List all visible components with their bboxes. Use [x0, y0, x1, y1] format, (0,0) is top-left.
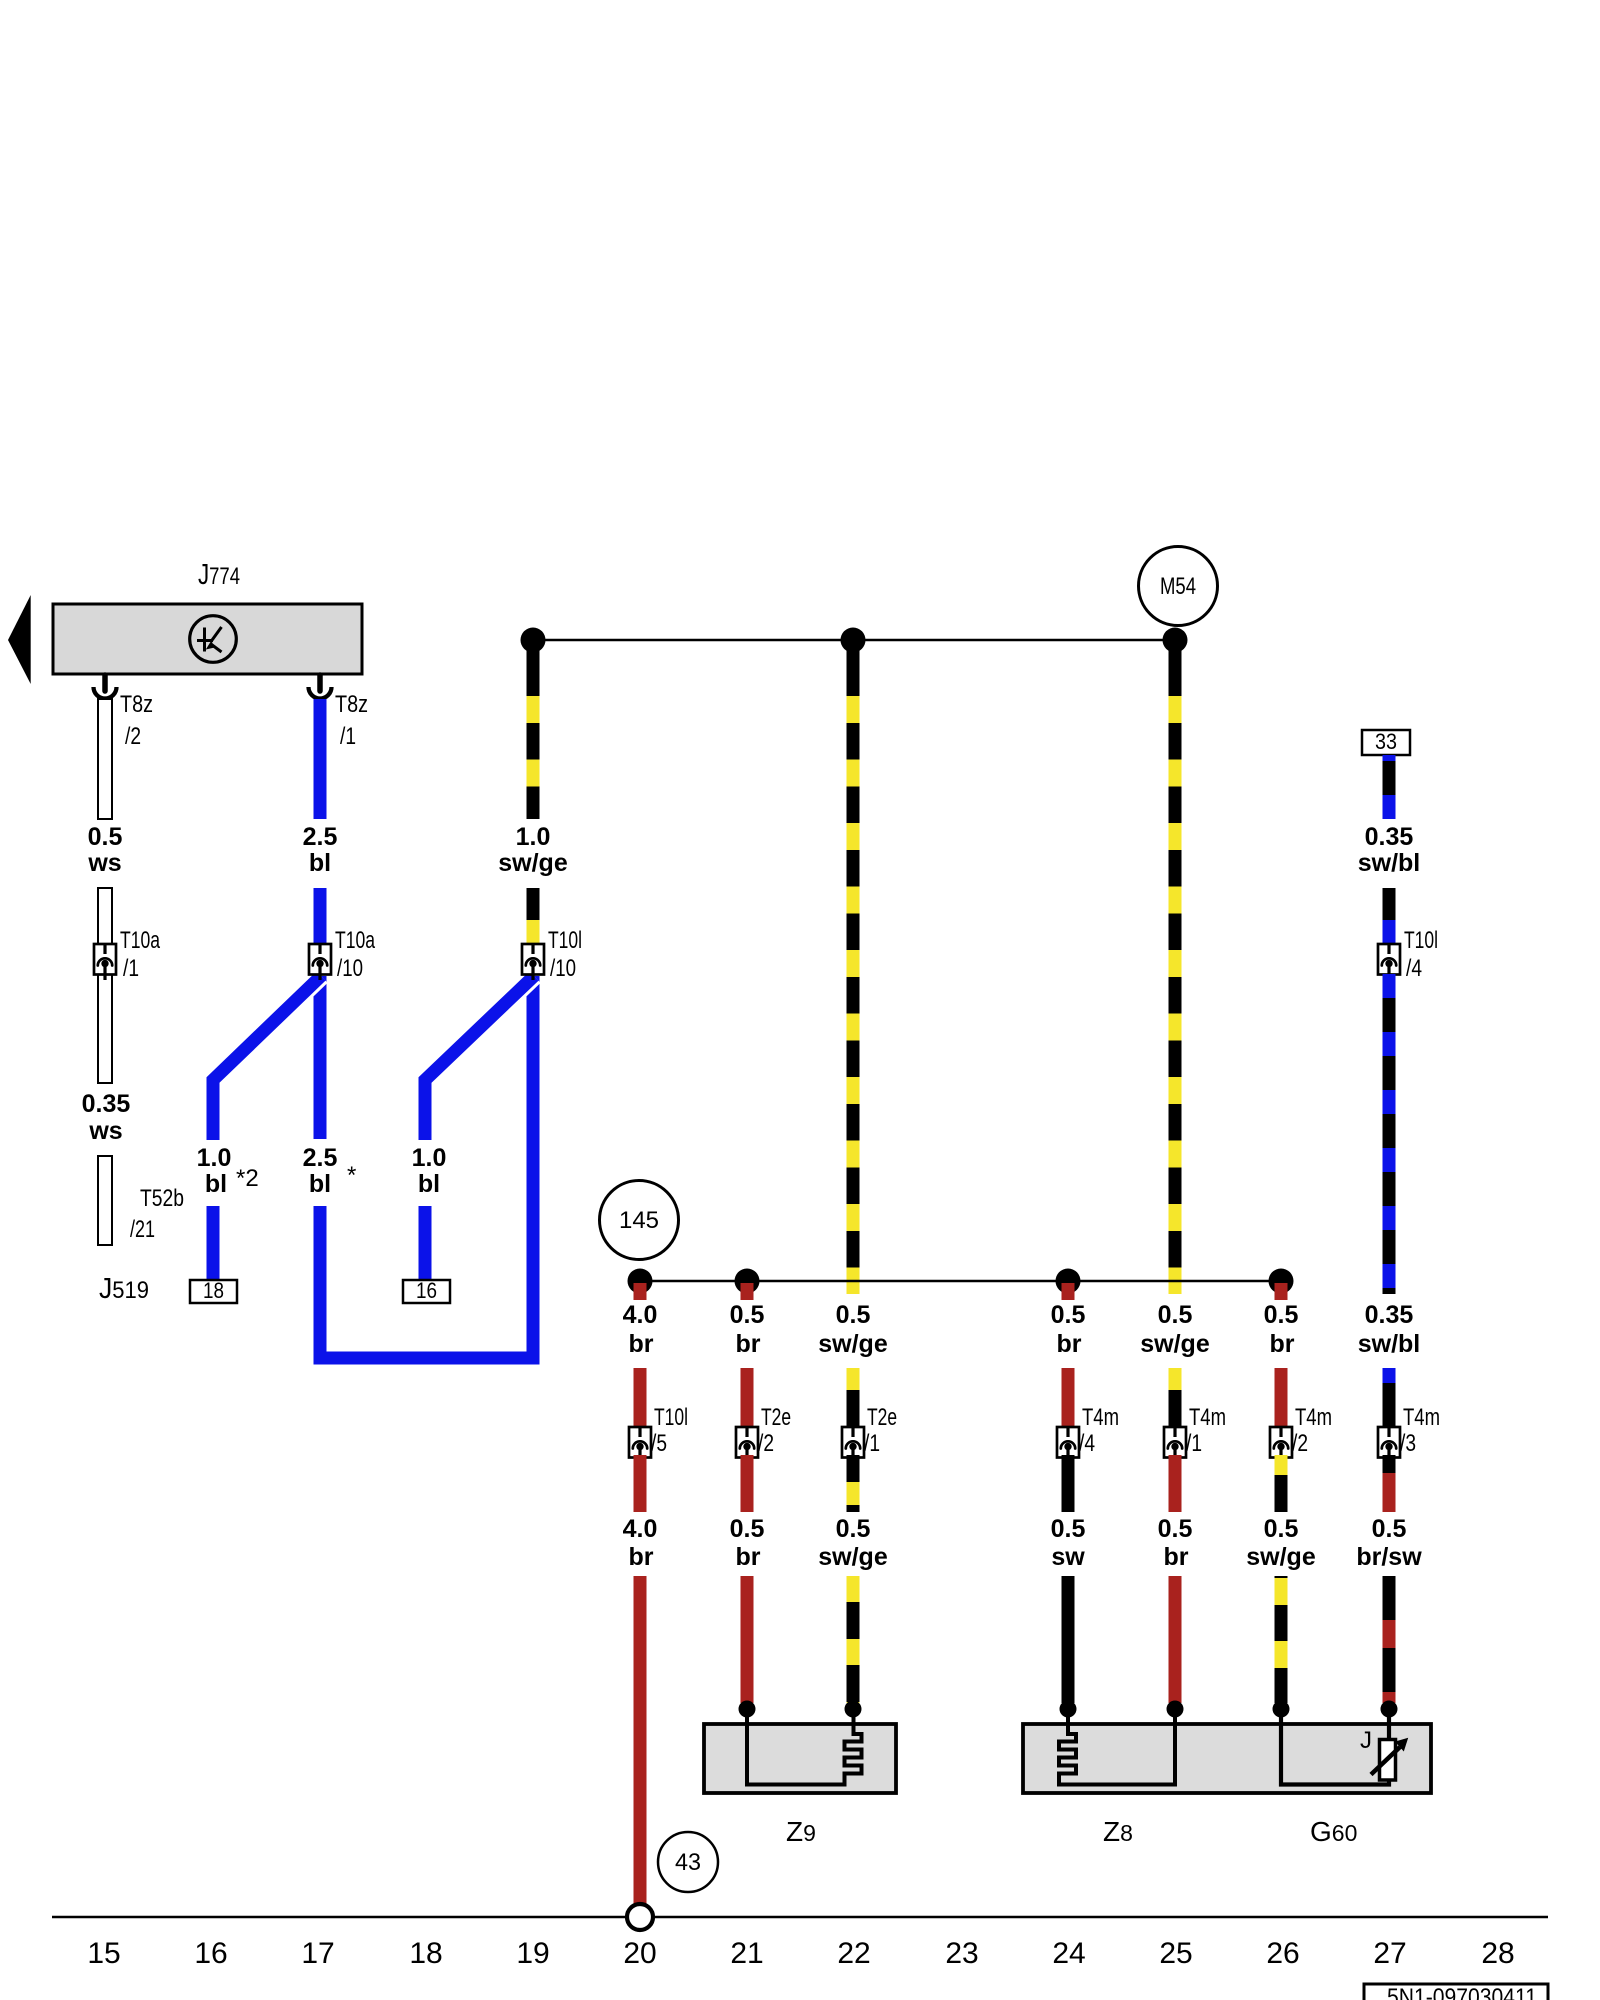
- sender G60 internal wiring: [1281, 1712, 1389, 1785]
- wire 0.5 sw/ge col26 below T4m/2: [1275, 1455, 1288, 1512]
- svg-text:4.0: 4.0: [623, 1301, 658, 1329]
- svg-text:0.5: 0.5: [836, 1515, 871, 1543]
- connector T10a/1: [94, 944, 116, 980]
- svg-text:0.5: 0.5: [836, 1301, 871, 1329]
- wire 0.5 sw col24 to Z8: [1062, 1576, 1075, 1703]
- wire 0.5 br col21 to T2e/2: [741, 1368, 754, 1427]
- svg-text:Z8: Z8: [1103, 1816, 1133, 1847]
- svg-text:0.35: 0.35: [1365, 1301, 1414, 1329]
- svg-text:20: 20: [623, 1937, 656, 1970]
- svg-text:0.5: 0.5: [730, 1301, 765, 1329]
- svg-text:T10l: T10l: [654, 1404, 688, 1431]
- wire 0.35 ws below T10a/1: [98, 974, 112, 1083]
- svg-text:0.5: 0.5: [1264, 1515, 1299, 1543]
- svg-text:*: *: [347, 1162, 356, 1189]
- svg-text:Z9: Z9: [786, 1816, 816, 1847]
- wire 0.35 sw/bl col27 to T4m/3: [1383, 1368, 1396, 1427]
- svg-text:sw/ge: sw/ge: [818, 1543, 888, 1571]
- svg-text:0.5: 0.5: [1264, 1301, 1299, 1329]
- svg-text:bl: bl: [205, 1170, 227, 1198]
- node label M54: [1139, 547, 1218, 626]
- junction dot at Z9 pin (col22): [845, 1701, 862, 1718]
- wire stub br col20: [634, 1283, 647, 1300]
- svg-text:28: 28: [1481, 1937, 1514, 1970]
- svg-text:J774: J774: [198, 559, 240, 591]
- svg-text:ws: ws: [87, 849, 121, 877]
- wire 4.0 br col20 long run to ground terminal: [634, 1576, 647, 1904]
- junction dot col21: [735, 1269, 760, 1294]
- connector T2e/2: [736, 1427, 758, 1463]
- wire 0.5 sw/ge col22 below T2e/1: [847, 1455, 860, 1512]
- svg-text:/10: /10: [337, 955, 363, 982]
- svg-text:T4m: T4m: [1403, 1404, 1440, 1431]
- svg-text:4.0: 4.0: [623, 1515, 658, 1543]
- heater element Z8 internal resistor: [1059, 1712, 1175, 1785]
- connector T4m/1: [1164, 1427, 1186, 1463]
- wire 0.5 br col21 to Z9: [741, 1576, 754, 1703]
- connector T4m/3: [1378, 1427, 1400, 1463]
- wire 0.5 sw/ge column 22 long run: [847, 646, 860, 1294]
- svg-text:18: 18: [203, 1278, 224, 1303]
- junction dot col26: [1269, 1269, 1294, 1294]
- sender G60 variable resistor: [1371, 1738, 1408, 1780]
- svg-text:16: 16: [416, 1278, 437, 1303]
- svg-text:/1: /1: [864, 1430, 880, 1457]
- svg-text:/10: /10: [550, 955, 576, 982]
- svg-text:/2: /2: [758, 1430, 774, 1457]
- wire 0.5 br col24 to T4m/4: [1062, 1368, 1075, 1427]
- svg-text:0.5: 0.5: [1051, 1515, 1086, 1543]
- svg-text:/4: /4: [1079, 1430, 1095, 1457]
- wire 0.35 sw/bl column 27 upper: [1383, 755, 1396, 819]
- wire 0.35 sw/bl long run below T10l/4: [1383, 974, 1396, 1294]
- terminal box 33 (plus connection): [1362, 729, 1410, 755]
- svg-text:18: 18: [409, 1937, 442, 1970]
- svg-text:0.5: 0.5: [1051, 1301, 1086, 1329]
- svg-text:/1: /1: [340, 723, 356, 750]
- control-unit function symbol (circled K) U1: [190, 616, 237, 663]
- svg-text:24: 24: [1052, 1937, 1085, 1970]
- svg-text:2.5: 2.5: [303, 1144, 338, 1172]
- junction dot at G60 pin (col27): [1381, 1701, 1398, 1718]
- direction arrow (current flow) at left edge: [8, 595, 31, 684]
- svg-text:ws: ws: [88, 1117, 122, 1145]
- junction dot col24: [1056, 1269, 1081, 1294]
- svg-text:br/sw: br/sw: [1356, 1543, 1422, 1571]
- svg-text:T52b: T52b: [140, 1185, 184, 1212]
- connector T10l/10: [522, 944, 544, 980]
- wire 0.5 sw/ge col25 to T4m/1: [1169, 1368, 1182, 1427]
- wire 0.5 br col25 below T4m/1: [1169, 1455, 1182, 1512]
- svg-text:M54: M54: [1160, 573, 1196, 600]
- connector T4m/2: [1270, 1427, 1292, 1463]
- wire 0.5 sw/ge column 25 long run: [1169, 646, 1182, 1294]
- top bus wire (node): [533, 639, 1175, 642]
- svg-text:bl: bl: [309, 1170, 331, 1198]
- heater element Z8 / sender G60 box: [1023, 1724, 1431, 1793]
- wire 0.5 br col25 to Z8: [1169, 1576, 1182, 1703]
- svg-text:sw/ge: sw/ge: [818, 1330, 888, 1358]
- svg-text:17: 17: [301, 1937, 334, 1970]
- wire 1.0 bl to terminal 16: [419, 1206, 432, 1281]
- wire 0.5 sw/ge col22 to Z9: [847, 1576, 860, 1703]
- svg-text:0.5: 0.5: [1372, 1515, 1407, 1543]
- svg-text:0.5: 0.5: [730, 1515, 765, 1543]
- wire 0.5 ws (white) column 15, upper segment: [98, 699, 112, 819]
- wire 1.0 bl *2 diagonal from T10a/10: [213, 976, 321, 1140]
- svg-text:0.35: 0.35: [1365, 823, 1414, 851]
- svg-text:sw/bl: sw/bl: [1358, 849, 1421, 877]
- svg-text:br: br: [736, 1543, 761, 1571]
- svg-text:1.0: 1.0: [197, 1144, 232, 1172]
- wire 0.5 ws segment to T10a/1: [98, 888, 112, 944]
- svg-text:sw: sw: [1051, 1543, 1085, 1571]
- ground terminal open circle col20: [627, 1904, 653, 1930]
- node label 43: [658, 1832, 718, 1892]
- svg-text:*2: *2: [236, 1165, 259, 1192]
- svg-text:T2e: T2e: [867, 1404, 897, 1431]
- svg-text:/21: /21: [130, 1216, 155, 1243]
- wire 0.35 sw/bl segment to T10l/4: [1383, 888, 1396, 944]
- svg-text:T10l: T10l: [548, 927, 582, 954]
- svg-text:21: 21: [730, 1937, 763, 1970]
- junction dot col25: [1163, 628, 1188, 653]
- wire 4.0 br col20 to T10l/5: [634, 1368, 647, 1427]
- svg-text:/2: /2: [125, 723, 141, 750]
- svg-text:16: 16: [194, 1937, 227, 1970]
- wire 0.5 br/sw col27 to G60: [1383, 1576, 1396, 1703]
- connector T4m/4: [1057, 1427, 1079, 1463]
- terminal box 16 on J519: [403, 1278, 450, 1303]
- svg-text:T4m: T4m: [1189, 1404, 1226, 1431]
- svg-text:sw/ge: sw/ge: [498, 849, 568, 877]
- heater element Z9 box: [704, 1724, 896, 1793]
- svg-text:145: 145: [619, 1207, 659, 1234]
- svg-text:J519: J519: [99, 1273, 149, 1305]
- svg-text:bl: bl: [418, 1170, 440, 1198]
- svg-text:br: br: [1270, 1330, 1295, 1358]
- wire 1.0 sw/ge column 19: [527, 646, 540, 819]
- connector T10l/5: [629, 1427, 651, 1463]
- svg-text:22: 22: [837, 1937, 870, 1970]
- svg-text:J: J: [1360, 1727, 1372, 1754]
- middle bus wire (node 145 rail): [640, 1280, 1281, 1283]
- svg-text:0.5: 0.5: [1158, 1515, 1193, 1543]
- heater element Z9 internal resistor: [747, 1712, 862, 1785]
- wire 2.5 bl U-loop to T10l/10: [320, 976, 533, 1358]
- svg-text:15: 15: [87, 1937, 120, 1970]
- svg-text:33: 33: [1375, 729, 1397, 754]
- svg-text:br: br: [1164, 1543, 1189, 1571]
- terminal box 18 on J519: [190, 1278, 237, 1303]
- wire 0.5 br col21 below T2e/2: [741, 1455, 754, 1512]
- svg-text:br: br: [629, 1543, 654, 1571]
- svg-text:0.5: 0.5: [88, 823, 123, 851]
- svg-text:/4: /4: [1406, 955, 1422, 982]
- junction dot at G60 pin (col26): [1273, 1701, 1290, 1718]
- svg-text:/3: /3: [1400, 1430, 1416, 1457]
- svg-text:1.0: 1.0: [412, 1144, 447, 1172]
- svg-text:1.0: 1.0: [516, 823, 551, 851]
- junction dot col22: [841, 628, 866, 653]
- svg-text:T10a: T10a: [120, 927, 160, 954]
- junction dot col20: [628, 1269, 653, 1294]
- svg-text:0.35: 0.35: [82, 1090, 131, 1118]
- junction dot at Z8 pin (col24): [1060, 1701, 1077, 1718]
- svg-text:br: br: [736, 1330, 761, 1358]
- svg-text:/2: /2: [1292, 1430, 1308, 1457]
- bottom reference line: [52, 1916, 1548, 1919]
- svg-text:T10l: T10l: [1404, 927, 1438, 954]
- part number box: [1364, 1984, 1548, 2000]
- wire 2.5 bl segment to T10a/10: [314, 888, 327, 944]
- wire 0.35 ws lowest segment to J519: [98, 1156, 112, 1245]
- svg-text:T10a: T10a: [335, 927, 375, 954]
- wire 0.5 sw/ge col26 to G60: [1275, 1576, 1288, 1703]
- wire stub br col24: [1062, 1283, 1075, 1300]
- junction dot at Z9 pin (col21): [739, 1701, 756, 1718]
- svg-text:G60: G60: [1310, 1816, 1357, 1847]
- wire 1.0 bl diagonal from T10l/10: [425, 976, 534, 1140]
- svg-text:sw/ge: sw/ge: [1140, 1330, 1210, 1358]
- svg-text:19: 19: [516, 1937, 549, 1970]
- wire stub br col26: [1275, 1283, 1288, 1300]
- wire stub br col21: [741, 1283, 754, 1300]
- svg-text:27: 27: [1373, 1937, 1406, 1970]
- wire 0.5 br/sw col27 below T4m/3: [1383, 1455, 1396, 1512]
- svg-text:T8z: T8z: [335, 691, 368, 718]
- wire 2.5 bl below T10a/10: [314, 976, 327, 1139]
- svg-text:26: 26: [1266, 1937, 1299, 1970]
- svg-text:bl: bl: [309, 849, 331, 877]
- svg-text:T2e: T2e: [761, 1404, 791, 1431]
- wire 0.5 br col26 to T4m/2: [1275, 1368, 1288, 1427]
- svg-text:T4m: T4m: [1082, 1404, 1119, 1431]
- svg-text:25: 25: [1159, 1937, 1192, 1970]
- svg-text:sw/bl: sw/bl: [1358, 1330, 1421, 1358]
- svg-text:23: 23: [945, 1937, 978, 1970]
- svg-text:br: br: [1057, 1330, 1082, 1358]
- svg-text:br: br: [629, 1330, 654, 1358]
- svg-text:5N1-097030411: 5N1-097030411: [1387, 1984, 1537, 2000]
- wire 2.5 bl column 17 from T8z/1: [314, 699, 327, 819]
- svg-text:43: 43: [675, 1849, 701, 1876]
- wire 0.5 sw/ge col22 to T2e/1: [847, 1368, 860, 1427]
- wire 0.5 sw col24 below T4m/4: [1062, 1455, 1075, 1512]
- svg-text:T8z: T8z: [120, 691, 153, 718]
- svg-text:2.5: 2.5: [303, 823, 338, 851]
- node label 145: [600, 1181, 679, 1260]
- svg-text:T4m: T4m: [1295, 1404, 1332, 1431]
- control unit J774: [53, 604, 362, 674]
- svg-text:sw/ge: sw/ge: [1246, 1543, 1316, 1571]
- wire 1.0 sw/ge segment to T10l/10: [527, 888, 540, 944]
- connector T8z/1 (pin and socket under J774): [309, 675, 332, 699]
- wire 4.0 br col20 below T10l/5: [634, 1455, 647, 1512]
- connector T10l/4: [1378, 944, 1400, 980]
- connector T10a/10: [309, 944, 331, 980]
- svg-text:/1: /1: [123, 955, 139, 982]
- svg-text:/5: /5: [651, 1430, 667, 1457]
- svg-text:/1: /1: [1186, 1430, 1202, 1457]
- connector T2e/1: [842, 1427, 864, 1463]
- junction dot col19: [521, 628, 546, 653]
- connector T8z/2 (pin and socket under J774): [94, 675, 117, 699]
- svg-text:0.5: 0.5: [1158, 1301, 1193, 1329]
- junction dot at Z8 pin (col25): [1167, 1701, 1184, 1718]
- wire 1.0 bl to terminal 18: [207, 1206, 220, 1281]
